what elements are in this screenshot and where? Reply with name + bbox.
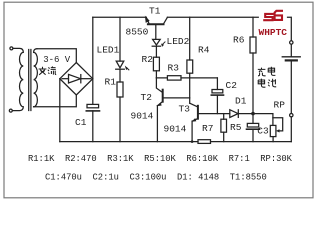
resistor R6 branch from top rail [250,17,256,113]
wire top rail to LED1 [119,17,121,61]
transformer primary winding [12,48,23,110]
resistor R2 [153,57,159,78]
wire node X horizontal (R2/R3/T2 collector junction to C2) [156,77,217,79]
wire T1 base down [155,24,157,39]
resistor R7 [198,140,211,144]
label T1 [149,6,161,17]
transformer secondary winding [34,49,38,107]
svg-text:WHPTC: WHPTC [259,27,288,38]
label LED2 [167,36,190,47]
label LED1 [97,44,120,55]
label 8550 [126,26,149,37]
svg-text:RP: RP [274,100,286,111]
label WHPTC red text [259,27,288,38]
svg-text:R1: R1 [105,77,117,88]
border frame [4,2,313,198]
battery connector terminal top [290,41,293,44]
svg-text:T2: T2 [141,92,153,103]
svg-text:D1: D1 [235,96,247,107]
capacitor C2 [211,78,223,114]
ground rail with R7 inline [60,141,291,143]
transistor T2 (9014 NPN) [157,90,163,107]
transistor T1 (8550 PNP in top rail) [145,16,168,25]
logo WHPTC red glyphs [263,11,283,20]
svg-text:R2: R2 [142,54,154,65]
wire T3 collector diagonal [190,103,198,107]
label R7 [202,123,213,134]
parts list text line 1 [28,154,293,164]
resistor R4 branch from top rail [187,17,193,103]
transformer core [29,50,31,111]
svg-text:3-6 V: 3-6 V [43,55,71,65]
capacitor C1 [86,104,99,141]
svg-text:T3: T3 [179,103,191,114]
potentiometer RP [270,114,282,142]
label T3 [179,103,191,114]
AC plug terminal top [10,47,13,50]
label 3-6 V [43,55,71,65]
svg-text:R5: R5 [230,122,242,133]
battery 充电电池 [282,44,300,113]
label R1 [105,77,117,88]
battery connector terminal bottom [290,114,293,117]
wire bridge plus up to top rail / down to C1 [92,17,94,104]
label 交流 (AC) drawn glyphs [39,66,57,74]
wire bridge minus down to ground rail [59,79,61,142]
label 电池 (battery) drawn glyphs [258,79,276,88]
node dot D1/R6/C3/RP junction [251,112,255,116]
svg-text:R7: R7 [202,123,213,134]
svg-text:8550: 8550 [126,26,149,37]
wire T3 base line with D1 to node dot [198,113,273,115]
label C2 [226,80,238,91]
label RP [274,100,286,111]
resistor R1 [117,82,123,142]
svg-text:R6: R6 [233,34,245,45]
top rail middle section [167,16,258,18]
WHPTC label box over top rail [259,5,287,38]
bridge rectifier diamond [60,63,93,96]
label R2 [142,54,154,65]
wire battery minus to ground rail corner [290,117,292,142]
junction T3 emitter/rail [191,140,194,143]
label 充电 (charge) drawn glyphs [258,67,276,76]
AC plug terminal bottom [9,109,12,112]
label 9014 for T3 [164,124,187,135]
svg-text:T1: T1 [149,6,161,17]
label T2 [141,92,153,103]
transistor T3 (9014 NPN) [192,106,198,122]
capacitor C3 [247,114,260,142]
label R6 [233,34,245,45]
label C1 [75,117,87,128]
wire T2 collector [156,78,162,93]
svg-text:C1: C1 [75,117,87,128]
svg-text:9014: 9014 [164,124,187,135]
wire secondary bottom to bridge AC2 [34,95,77,107]
label R3 [168,62,180,73]
LED LED1 [116,61,129,82]
LED LED2 [152,39,165,57]
label R5 [230,122,242,133]
parts list text line 2 [45,172,267,182]
svg-text:R3: R3 [168,62,180,73]
svg-text:9014: 9014 [131,111,154,122]
wire T3 emitter down to ground rail [191,121,193,141]
bridge internal diode [62,74,91,83]
label C3 [257,125,269,136]
svg-text:C3: C3 [257,125,269,136]
resistor R5 [221,114,227,142]
wire T2 base to node X2 [163,97,190,99]
top rail left section [93,16,147,18]
wire T2 emitter down to ground rail [156,106,158,142]
diode D1 [230,110,239,118]
svg-text:LED2: LED2 [167,36,190,47]
svg-text:R1:1K R2:470 R3:1K R5:10K: R1:1K R2:470 R3:1K R5:10K R6:10K R7:1 RP… [28,154,293,164]
top rail right section to battery branch [287,17,291,41]
wire secondary top to bridge AC1 [37,49,76,63]
label R4 [198,44,210,55]
resistor R3 [167,76,181,80]
label D1 [235,96,247,107]
svg-text:C1:470u C2:1u C3:100u D1: 4: C1:470u C2:1u C3:100u D1: 4148 T1:8550 [45,172,267,182]
svg-text:R4: R4 [198,44,210,55]
svg-text:C2: C2 [226,80,238,91]
svg-text:LED1: LED1 [97,44,120,55]
label 9014 for T2 [131,111,154,122]
